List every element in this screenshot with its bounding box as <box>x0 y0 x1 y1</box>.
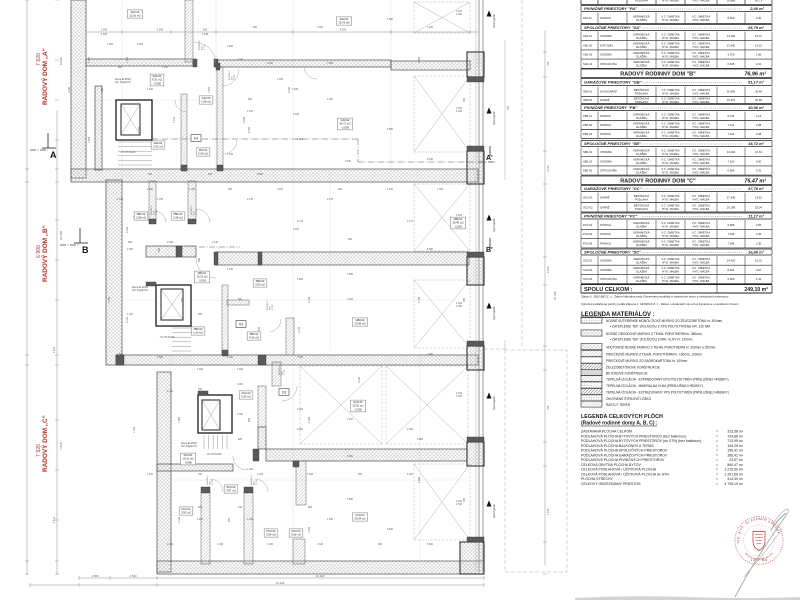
svg-text:23,52: 23,52 <box>755 196 762 200</box>
svg-text:SC0.02: SC0.02 <box>583 268 593 272</box>
svg-text:PB0.03: PB0.03 <box>583 132 592 136</box>
svg-text:700: 700 <box>463 297 466 302</box>
svg-text:CELKOVÁ PODLAHOVÁ / ÚŽITKOVÁ P: CELKOVÁ PODLAHOVÁ / ÚŽITKOVÁ PLOCHA <box>581 467 657 472</box>
svg-text:PB0.01: PB0.01 <box>250 332 259 336</box>
svg-text:2,98: 2,98 <box>756 123 762 127</box>
svg-text:6 300: 6 300 <box>407 473 414 476</box>
svg-text:SC0.02: SC0.02 <box>227 485 236 489</box>
svg-text:CHODBA: CHODBA <box>600 150 612 154</box>
svg-text:2 880: 2 880 <box>418 56 421 63</box>
svg-text:1 100: 1 100 <box>147 88 154 91</box>
svg-text:75,47 m²: 75,47 m² <box>744 178 766 184</box>
svg-text:PLOCHA STRECHY: PLOCHA STRECHY <box>581 477 614 481</box>
svg-text:Dvere EI-30/D1: Dvere EI-30/D1 <box>132 286 149 289</box>
svg-text:150: 150 <box>208 173 213 176</box>
svg-text:PODLAHOVÁ PLOCHA GARÁŽOVÝCH PR: PODLAHOVÁ PLOCHA GARÁŽOVÝCH PRIESTOROV <box>581 452 668 457</box>
svg-text:V.C. OMIETKA: V.C. OMIETKA <box>661 14 679 18</box>
svg-text:SA0.04: SA0.04 <box>154 141 163 145</box>
svg-text:V.C. OMIETKA: V.C. OMIETKA <box>661 266 679 270</box>
svg-text:1 500: 1 500 <box>92 574 99 578</box>
svg-text:HYG. MAĽBA: HYG. MAĽBA <box>693 64 710 68</box>
svg-text:2,42: 2,42 <box>756 277 762 281</box>
svg-text:HYG. MAĽBA: HYG. MAĽBA <box>662 45 679 49</box>
svg-text:PIVNIČNÉ PRIESTORY "PC": PIVNIČNÉ PRIESTORY "PC" <box>584 214 637 219</box>
svg-text:PA0.01: PA0.01 <box>583 16 592 20</box>
svg-text:9 190: 9 190 <box>345 160 352 163</box>
svg-text:SPOLOČNÉ PRIESTORY "SB": SPOLOČNÉ PRIESTORY "SB" <box>584 141 641 146</box>
svg-text:PODLAHOVÁ PLOCHA PIVNIČNÝCH PR: PODLAHOVÁ PLOCHA PIVNIČNÝCH PRIESTOROV <box>581 457 665 462</box>
svg-text:1 440: 1 440 <box>387 188 394 191</box>
svg-text:300: 300 <box>148 173 153 176</box>
svg-text:1 970: 1 970 <box>272 304 274 310</box>
svg-text:Výpočet podlahovej plochy podľ: Výpočet podlahovej plochy podľa Zákona č… <box>581 302 739 306</box>
svg-text:1 500: 1 500 <box>237 413 244 416</box>
svg-text:1 500: 1 500 <box>178 416 181 423</box>
svg-text:600: 600 <box>198 257 201 262</box>
svg-text:HYG. MAĽBA: HYG. MAĽBA <box>693 152 710 156</box>
svg-text:144,25 m²: 144,25 m² <box>727 444 744 448</box>
svg-text:V.C. OMIETKA: V.C. OMIETKA <box>692 88 710 92</box>
svg-text:3 100: 3 100 <box>68 86 71 93</box>
svg-text:SA0.02: SA0.02 <box>131 10 140 14</box>
svg-text:1 310: 1 310 <box>237 58 244 61</box>
svg-text:1 875: 1 875 <box>88 136 91 143</box>
svg-text:1,40 m2: 1,40 m2 <box>193 331 203 335</box>
svg-text:V.C. OMIETKA: V.C. OMIETKA <box>692 51 710 55</box>
svg-text:GB0.01: GB0.01 <box>583 90 593 94</box>
svg-text:2 140: 2 140 <box>212 241 219 244</box>
svg-text:1 300: 1 300 <box>126 56 129 63</box>
svg-text:KERAMICKÁ: KERAMICKÁ <box>633 149 649 153</box>
svg-text:7 480: 7 480 <box>427 353 434 356</box>
svg-text:700: 700 <box>198 473 203 476</box>
svg-text:19.470: 19.470 <box>727 98 736 102</box>
svg-text:6 800: 6 800 <box>347 498 354 501</box>
svg-text:600: 600 <box>338 188 343 191</box>
svg-text:HYG. MAĽBA: HYG. MAĽBA <box>662 279 679 283</box>
svg-text:B': B' <box>486 247 493 254</box>
svg-text:STROJOVŇA: STROJOVŇA <box>600 62 617 66</box>
svg-text:2 300: 2 300 <box>456 305 463 308</box>
svg-text:GARÁŽOVÉ PRIESTORY "GB": GARÁŽOVÉ PRIESTORY "GB" <box>584 80 642 85</box>
svg-text:PC0.02: PC0.02 <box>267 529 276 533</box>
svg-text:712,95 m²: 712,95 m² <box>727 439 744 443</box>
svg-text:CHODBA: CHODBA <box>600 34 612 38</box>
svg-text:PIVNICA: PIVNICA <box>600 132 611 136</box>
svg-text:PC0.01: PC0.01 <box>182 507 191 511</box>
svg-text:5 300: 5 300 <box>387 18 394 21</box>
svg-text:4 450: 4 450 <box>327 98 334 101</box>
svg-text:249,10 m²: 249,10 m² <box>744 287 768 293</box>
svg-text:V.C. OMIETKA: V.C. OMIETKA <box>692 158 710 162</box>
svg-text:1,96: 1,96 <box>756 53 762 57</box>
svg-text:7.610: 7.610 <box>728 159 735 163</box>
svg-text:2 180: 2 180 <box>277 78 284 81</box>
svg-text:KERAMICKÁ: KERAMICKÁ <box>633 51 649 55</box>
svg-text:3,87 m2: 3,87 m2 <box>226 489 236 493</box>
svg-text:1 300: 1 300 <box>101 28 108 32</box>
svg-text:GB0.02: GB0.02 <box>583 98 593 102</box>
svg-text:1 500: 1 500 <box>177 248 184 251</box>
svg-text:11,17 m²: 11,17 m² <box>748 214 764 219</box>
svg-text:HYG. MAĽBA: HYG. MAĽBA <box>662 125 679 129</box>
svg-text:LEGENDA CELKOVÝCH PLÔCH: LEGENDA CELKOVÝCH PLÔCH <box>581 412 663 420</box>
svg-text:HYG. MAĽBA: HYG. MAĽBA <box>662 0 679 2</box>
svg-text:800: 800 <box>128 241 133 244</box>
svg-text:-3,000: -3,000 <box>153 81 161 85</box>
svg-text:1 040: 1 040 <box>217 543 224 546</box>
svg-text:2,40 m²: 2,40 m² <box>749 6 764 11</box>
svg-text:2 300: 2 300 <box>317 26 324 29</box>
svg-text:7 400: 7 400 <box>297 356 304 359</box>
svg-text:1 100: 1 100 <box>247 468 254 471</box>
svg-text:12.940: 12.940 <box>727 43 736 47</box>
svg-text:7 610: 7 610 <box>53 346 56 353</box>
svg-text:30,46 m2: 30,46 m2 <box>452 221 464 225</box>
svg-text:PRIEČKOVÉ MURIVO Z TEHÁL POROT: PRIEČKOVÉ MURIVO Z TEHÁL POROTHERM hr. 1… <box>606 352 702 357</box>
svg-text:ŽELEZOBETÓNOVÉ KONŠTRUKCIE: ŽELEZOBETÓNOVÉ KONŠTRUKCIE <box>606 365 660 370</box>
svg-text:1 815: 1 815 <box>308 526 311 533</box>
svg-text:7.441: 7.441 <box>728 132 735 136</box>
svg-text:20,69: 20,69 <box>755 98 762 102</box>
svg-text:560,47 m²: 560,47 m² <box>727 463 744 467</box>
svg-text:PB0.01: PB0.01 <box>583 114 592 118</box>
svg-text:V.C. OMIETKA: V.C. OMIETKA <box>692 149 710 153</box>
svg-text:KERAMICKÁ: KERAMICKÁ <box>633 167 649 171</box>
svg-text:=: = <box>716 444 718 448</box>
svg-text:7.646: 7.646 <box>728 241 735 245</box>
svg-text:1 201,59 m²: 1 201,59 m² <box>724 472 744 476</box>
svg-text:CHODBA: CHODBA <box>600 53 612 57</box>
svg-text:KERAMICKÁ: KERAMICKÁ <box>633 158 649 162</box>
svg-text:PC0.02: PC0.02 <box>583 232 593 236</box>
svg-text:HYG. MAĽBA: HYG. MAĽBA <box>662 261 679 265</box>
svg-text:15 240: 15 240 <box>276 581 285 585</box>
svg-text:A: A <box>50 150 57 160</box>
svg-text:KERAMICKÁ: KERAMICKÁ <box>633 60 649 64</box>
svg-text:PA0.01: PA0.01 <box>199 148 208 152</box>
svg-text:SA0.03: SA0.03 <box>583 53 592 57</box>
svg-text:750: 750 <box>546 405 550 410</box>
svg-text:2 300: 2 300 <box>456 503 463 506</box>
svg-text:1 860: 1 860 <box>297 278 304 281</box>
svg-text:1 970: 1 970 <box>208 86 211 93</box>
svg-text:=: = <box>716 477 718 481</box>
svg-text:3 100: 3 100 <box>418 296 421 303</box>
svg-text:2 190: 2 190 <box>546 266 550 273</box>
svg-text:V.C. OMIETKA: V.C. OMIETKA <box>692 14 710 18</box>
svg-text:16,86 m²: 16,86 m² <box>748 250 765 255</box>
svg-text:2,96 m2: 2,96 m2 <box>136 216 146 220</box>
svg-text:14.400: 14.400 <box>727 34 736 38</box>
svg-text:KERAMICKÁ: KERAMICKÁ <box>633 121 649 125</box>
svg-text:2 020: 2 020 <box>308 416 311 423</box>
svg-text:HYG. MAĽBA: HYG. MAĽBA <box>662 152 679 156</box>
svg-text:925: 925 <box>158 247 161 252</box>
svg-text:CELKOVÁ PODLAHOVÁ / ÚŽITKOVÁ P: CELKOVÁ PODLAHOVÁ / ÚŽITKOVÁ PLOCHA do S… <box>581 471 669 476</box>
svg-text:SA0.01: SA0.01 <box>153 74 162 78</box>
svg-text:CHODBA: CHODBA <box>600 268 612 272</box>
svg-text:SA0.01: SA0.01 <box>340 17 349 21</box>
svg-text:23,52 m2: 23,52 m2 <box>352 404 364 408</box>
svg-text:V.C. OMIETKA: V.C. OMIETKA <box>661 96 679 100</box>
svg-text:1 150: 1 150 <box>247 518 254 521</box>
svg-text:VNÚTORNÉ NOSNÉ MURIVO Z TEHÁL: VNÚTORNÉ NOSNÉ MURIVO Z TEHÁL POROTHERM … <box>606 345 716 350</box>
svg-text:600: 600 <box>358 473 363 476</box>
svg-text:PC0.03: PC0.03 <box>292 529 301 533</box>
svg-text:PC0.01: PC0.01 <box>583 223 593 227</box>
svg-text:1 970: 1 970 <box>204 44 206 50</box>
svg-text:V.C. OMIETKA: V.C. OMIETKA <box>692 33 710 37</box>
svg-text:3 100: 3 100 <box>126 226 129 233</box>
svg-text:3 105: 3 105 <box>308 296 311 303</box>
svg-text:1 200: 1 200 <box>427 26 434 29</box>
svg-text:HYG. MAĽBA: HYG. MAĽBA <box>662 36 679 40</box>
svg-text:23,57 m²: 23,57 m² <box>729 458 744 462</box>
svg-text:KERAMICKÁ: KERAMICKÁ <box>633 33 649 37</box>
svg-text:2 300: 2 300 <box>407 428 414 431</box>
svg-text:-2,030: -2,030 <box>341 125 349 129</box>
svg-text:7 610: 7 610 <box>59 442 63 450</box>
svg-text:GC0.01: GC0.01 <box>353 400 363 404</box>
svg-text:3,00 m2: 3,00 m2 <box>255 283 265 287</box>
svg-text:2 025: 2 025 <box>88 56 91 63</box>
svg-text:HYG. MAĽBA: HYG. MAĽBA <box>693 261 710 265</box>
svg-text:6 800: 6 800 <box>297 428 304 431</box>
svg-text:26.950: 26.950 <box>727 90 736 94</box>
svg-text:V.C. OMIETKA: V.C. OMIETKA <box>661 130 679 134</box>
svg-text:1 200: 1 200 <box>167 543 174 546</box>
svg-text:8 300: 8 300 <box>387 528 394 531</box>
svg-text:=: = <box>716 430 718 434</box>
svg-text:V.C. OMIETKA: V.C. OMIETKA <box>692 121 710 125</box>
svg-text:9 190: 9 190 <box>427 158 434 161</box>
svg-text:GC0.01: GC0.01 <box>583 196 593 200</box>
svg-text:KERAMICKÁ: KERAMICKÁ <box>633 112 649 116</box>
svg-text:KERAMICKÁ: KERAMICKÁ <box>633 275 649 279</box>
svg-text:6.605: 6.605 <box>728 62 735 66</box>
svg-text:2 140: 2 140 <box>227 356 234 359</box>
svg-text:HYG. MAĽBA: HYG. MAĽBA <box>662 170 679 174</box>
svg-text:PB0.02: PB0.02 <box>583 123 592 127</box>
svg-text:22 340: 22 340 <box>553 291 557 300</box>
svg-text:17x176,5x260: 17x176,5x260 <box>120 151 136 154</box>
svg-text:Dvere EI-30/D1: Dvere EI-30/D1 <box>181 442 198 445</box>
svg-text:HYG. MAĽBA: HYG. MAĽBA <box>693 234 710 238</box>
svg-text:1 100: 1 100 <box>147 473 154 476</box>
svg-text:SB0.02: SB0.02 <box>256 279 265 283</box>
svg-text:KERAMICKÁ: KERAMICKÁ <box>633 266 649 270</box>
svg-text:V.C. OMIETKA: V.C. OMIETKA <box>661 88 679 92</box>
svg-text:8.151: 8.151 <box>728 114 735 118</box>
svg-text:HYG. MAĽBA: HYG. MAĽBA <box>693 134 710 138</box>
svg-text:2,40: 2,40 <box>756 16 762 20</box>
svg-text:7.441: 7.441 <box>728 123 735 127</box>
svg-text:HYG. MAĽBA: HYG. MAĽBA <box>693 36 710 40</box>
svg-text:3,00: 3,00 <box>756 159 762 163</box>
svg-text:1 150: 1 150 <box>546 165 550 172</box>
svg-text:HYG. MAĽBA: HYG. MAĽBA <box>662 134 679 138</box>
svg-text:SC0.01: SC0.01 <box>184 453 193 457</box>
svg-text:6 800: 6 800 <box>347 455 354 458</box>
svg-text:V.C. OMIETKA: V.C. OMIETKA <box>692 275 710 279</box>
svg-text:8 230: 8 230 <box>59 57 63 65</box>
svg-text:1 500: 1 500 <box>117 353 124 356</box>
svg-text:• ZATEPLENIE TEP. IZOLÁCIOU Z: • ZATEPLENIE TEP. IZOLÁCIOU Z MIN. VLNY … <box>610 338 693 342</box>
svg-text:V.C. OMIETKA: V.C. OMIETKA <box>692 96 710 100</box>
svg-text:750: 750 <box>546 61 550 66</box>
svg-text:7 920: 7 920 <box>36 53 42 66</box>
svg-text:V.C. OMIETKA: V.C. OMIETKA <box>692 230 710 234</box>
svg-text:34,71 m2: 34,71 m2 <box>339 122 351 126</box>
svg-text:1 505: 1 505 <box>157 356 164 359</box>
svg-text:1 750: 1 750 <box>108 296 111 303</box>
svg-text:KOTOLŇA: KOTOLŇA <box>600 43 613 47</box>
svg-text:V.C. OMIETKA: V.C. OMIETKA <box>661 221 679 225</box>
svg-text:V.C. OMIETKA: V.C. OMIETKA <box>692 167 710 171</box>
svg-text:KERAMICKÁ: KERAMICKÁ <box>633 14 649 18</box>
svg-text:25,79 m²: 25,79 m² <box>747 25 765 30</box>
svg-text:9 200: 9 200 <box>340 28 347 32</box>
svg-text:=: = <box>716 463 718 467</box>
svg-text:7 590: 7 590 <box>347 273 354 276</box>
svg-text:1 750: 1 750 <box>133 426 136 433</box>
svg-text:630: 630 <box>378 543 383 546</box>
svg-text:23,04: 23,04 <box>755 205 762 209</box>
svg-text:1 940: 1 940 <box>197 368 204 371</box>
svg-text:HYG. MAĽBA: HYG. MAĽBA <box>693 279 710 283</box>
svg-text:2,36: 2,36 <box>756 232 762 236</box>
svg-text:-2,030: -2,030 <box>454 224 462 228</box>
svg-text:TEPELNÁ IZOLÁCIA - EXPANDOVANÝ: TEPELNÁ IZOLÁCIA - EXPANDOVANÝ EPS POLYS… <box>606 377 729 382</box>
svg-text:SA0.02: SA0.02 <box>583 43 592 47</box>
svg-text:=: = <box>716 439 718 443</box>
svg-text:V.C. OMIETKA: V.C. OMIETKA <box>661 33 679 37</box>
svg-text:27.340: 27.340 <box>727 196 736 200</box>
svg-text:10,96 m²: 10,96 m² <box>748 105 765 110</box>
svg-text:724,86 m²: 724,86 m² <box>727 434 744 438</box>
svg-text:PODLAHOVÁ PLOCHA SPOLOČNÝCH PR: PODLAHOVÁ PLOCHA SPOLOČNÝCH PRIESTOROV <box>581 448 668 453</box>
svg-text:1 970: 1 970 <box>256 479 258 485</box>
svg-text:2 300: 2 300 <box>137 43 144 46</box>
svg-text:PODLAHA: PODLAHA <box>635 0 648 2</box>
svg-text:HYG. MAĽBA: HYG. MAĽBA <box>693 54 710 58</box>
svg-text:6 550: 6 550 <box>387 128 394 131</box>
svg-text:3,93 m2: 3,93 m2 <box>181 511 191 515</box>
svg-text:TEPELNÁ IZOLÁCIA - EXTRUDOVANÝ: TEPELNÁ IZOLÁCIA - EXTRUDOVANÝ XPS POLYS… <box>606 390 729 395</box>
svg-text:2 100: 2 100 <box>126 316 129 323</box>
svg-text:1 970: 1 970 <box>234 74 236 80</box>
svg-text:HYG. MAĽBA: HYG. MAĽBA <box>693 18 710 22</box>
svg-text:30,46: 30,46 <box>755 90 762 94</box>
svg-text:PODLAHA: PODLAHA <box>635 100 648 104</box>
svg-text:CHODBA: CHODBA <box>600 259 612 263</box>
svg-text:3,56 m2: 3,56 m2 <box>291 533 301 537</box>
svg-text:HYG. MAĽBA: HYG. MAĽBA <box>662 91 679 95</box>
svg-text:PIVNIČNÉ PRIESTORY "PA": PIVNIČNÉ PRIESTORY "PA" <box>584 6 637 11</box>
svg-text:SB0.02: SB0.02 <box>583 159 592 163</box>
svg-text:660: 660 <box>238 298 243 301</box>
svg-text:150: 150 <box>238 506 243 509</box>
svg-text:PC0.03: PC0.03 <box>583 241 593 245</box>
svg-text:• ZATEPLENIE TEP. IZOLÁCIOU Z: • ZATEPLENIE TEP. IZOLÁCIOU Z XPS POLYST… <box>610 324 710 329</box>
svg-text:2 025: 2 025 <box>101 32 108 36</box>
svg-text:=: = <box>716 472 718 476</box>
svg-text:7.646: 7.646 <box>728 232 735 236</box>
svg-text:RASTLÝ TERÉN: RASTLÝ TERÉN <box>606 402 631 407</box>
svg-text:1 345: 1 345 <box>227 153 234 156</box>
svg-text:GB0.02: GB0.02 <box>355 318 365 322</box>
svg-text:B: B <box>82 245 89 255</box>
svg-text:HYG. MAĽBA: HYG. MAĽBA <box>662 270 679 274</box>
svg-text:51,17 m²: 51,17 m² <box>748 80 765 85</box>
svg-text:1 215,50 m²: 1 215,50 m² <box>724 468 744 472</box>
svg-text:1 300: 1 300 <box>437 188 444 191</box>
svg-text:=: = <box>716 468 718 472</box>
svg-text:NOSNÉ OBVODOVÉ MURIVO Z TEHÁL: NOSNÉ OBVODOVÉ MURIVO Z TEHÁL POROTHERM … <box>606 331 702 336</box>
svg-text:V.C. OMIETKA: V.C. OMIETKA <box>661 112 679 116</box>
svg-text:900: 900 <box>203 28 208 32</box>
svg-text:1 640: 1 640 <box>317 543 324 546</box>
svg-text:HYG. MAĽBA: HYG. MAĽBA <box>662 18 679 22</box>
svg-text:=: = <box>716 482 718 486</box>
svg-text:SPOLOČNÉ PRIESTORY "SC": SPOLOČNÉ PRIESTORY "SC" <box>584 250 641 255</box>
svg-text:KERAMICKÁ: KERAMICKÁ <box>633 230 649 234</box>
svg-text:2,42: 2,42 <box>756 169 762 173</box>
svg-text:2,36: 2,36 <box>756 241 762 245</box>
svg-text:KERAMICKÁ: KERAMICKÁ <box>633 130 649 134</box>
svg-text:925: 925 <box>248 417 251 422</box>
svg-text:1 750: 1 750 <box>138 126 141 133</box>
svg-text:PIVNICA: PIVNICA <box>600 232 611 236</box>
svg-text:17x176,5x260: 17x176,5x260 <box>206 453 222 456</box>
svg-text:6 800: 6 800 <box>417 438 424 441</box>
svg-text:RADOVÝ RODINNÝ DOM "B": RADOVÝ RODINNÝ DOM "B" <box>620 70 696 77</box>
svg-text:Zákon č. 182/1993 Z. z., Zákon: Zákon č. 182/1993 Z. z., Zákon Národnej … <box>581 295 729 299</box>
svg-text:1 500: 1 500 <box>130 574 137 578</box>
svg-text:SB0.03: SB0.03 <box>194 327 203 331</box>
svg-text:2,98: 2,98 <box>756 132 762 136</box>
svg-text:10,31: 10,31 <box>755 259 762 263</box>
svg-text:5 750: 5 750 <box>248 126 251 133</box>
svg-text:SPOLU CELKOM :: SPOLU CELKOM : <box>584 287 633 293</box>
svg-text:4 708,19 m³: 4 708,19 m³ <box>724 482 744 486</box>
svg-text:GB0.01: GB0.01 <box>453 217 463 221</box>
svg-text:6.605: 6.605 <box>728 277 735 281</box>
svg-text:1 220: 1 220 <box>257 473 264 476</box>
svg-text:Vjazd garáž: Vjazd garáž <box>492 396 496 410</box>
svg-text:1 100: 1 100 <box>167 390 174 393</box>
svg-text:Viď. Projekt PO: Viď. Projekt PO <box>115 81 131 84</box>
svg-text:925: 925 <box>198 313 203 316</box>
svg-text:6,31 m2: 6,31 m2 <box>152 78 162 82</box>
svg-text:V.C. OMIETKA: V.C. OMIETKA <box>661 149 679 153</box>
svg-text:HYG. MAĽBA: HYG. MAĽBA <box>693 91 710 95</box>
svg-text:23,06 m2: 23,06 m2 <box>354 322 366 326</box>
svg-text:HYG. MAĽBA: HYG. MAĽBA <box>693 197 710 201</box>
svg-text:HYG. MAĽBA: HYG. MAĽBA <box>662 234 679 238</box>
svg-text:1 970: 1 970 <box>196 209 198 215</box>
svg-text:HYG. MAĽBA: HYG. MAĽBA <box>693 207 710 211</box>
svg-text:V.C. OMIETKA: V.C. OMIETKA <box>661 204 679 208</box>
svg-text:10,31 m2: 10,31 m2 <box>196 275 208 279</box>
svg-text:Vjazd garáž: Vjazd garáž <box>492 111 496 125</box>
svg-text:150: 150 <box>198 388 203 391</box>
svg-text:HYG. MAĽBA: HYG. MAĽBA <box>662 100 679 104</box>
svg-text:1 100: 1 100 <box>227 268 234 271</box>
svg-text:2 100: 2 100 <box>277 188 284 191</box>
svg-text:HYG. MAĽBA: HYG. MAĽBA <box>693 170 710 174</box>
